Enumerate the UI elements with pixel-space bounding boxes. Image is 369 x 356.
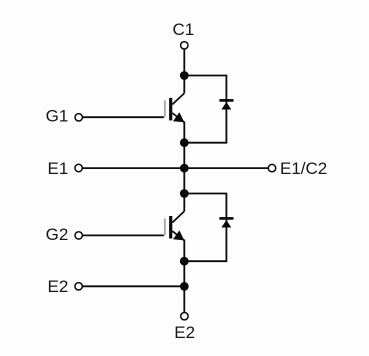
terminal G1 bbox=[75, 114, 82, 121]
wire node N2 to node N3 bbox=[183, 143, 185, 168]
wire Q2 emitter to node N5 bbox=[183, 240, 185, 262]
svg-text:E2: E2 bbox=[174, 323, 195, 342]
wire node N6 to E2 bottom terminal bbox=[183, 286, 185, 312]
wire node N1 to Q1 collector bbox=[183, 76, 185, 94]
junction node N5 bbox=[180, 257, 189, 266]
svg-text:G1: G1 bbox=[46, 107, 69, 126]
terminal E2 left bbox=[75, 283, 82, 290]
wire Q1 emitter to node N2 bbox=[183, 122, 185, 143]
wire D2 branch: node N4 to D2 cathode, down, D2 anode to node N5 bbox=[184, 194, 226, 262]
wire G2 terminal to Q2 gate bbox=[83, 234, 164, 236]
terminal G2 bbox=[75, 232, 82, 239]
junction node N6 bbox=[180, 282, 189, 291]
terminal C1 bbox=[181, 42, 188, 49]
junction node N4 bbox=[180, 189, 189, 198]
diode D2 bbox=[219, 218, 233, 227]
svg-text:E1/C2: E1/C2 bbox=[280, 159, 327, 178]
wire G1 terminal to Q1 gate bbox=[83, 116, 164, 118]
svg-text:C1: C1 bbox=[173, 20, 195, 39]
wire node N5 to node N6 bbox=[183, 261, 185, 286]
terminal E2 bottom bbox=[181, 313, 188, 320]
wire node N3 to node N4 bbox=[183, 168, 185, 193]
svg-text:G2: G2 bbox=[46, 225, 69, 244]
IGBT Q2 bbox=[164, 211, 184, 240]
wire C1 terminal to node N1 bbox=[183, 50, 185, 76]
junction node N2 bbox=[180, 138, 189, 147]
terminal E1 bbox=[75, 164, 82, 171]
wire node N4 to Q2 collector bbox=[183, 194, 185, 212]
junction node N3 bbox=[180, 164, 189, 173]
svg-text:E1: E1 bbox=[48, 159, 69, 178]
junction node N1 bbox=[180, 71, 189, 80]
wire E2 terminal to node N6 bbox=[82, 285, 184, 287]
terminal E1/C2 bbox=[268, 164, 275, 171]
svg-text:E2: E2 bbox=[48, 277, 69, 296]
wire D1 branch: node N1 to D1 cathode, down, D1 anode to node N2 bbox=[184, 76, 226, 143]
wire E1 rail (E1 terminal to E1/C2 terminal) bbox=[82, 167, 268, 169]
diode D1 bbox=[219, 100, 233, 109]
IGBT Q1 bbox=[164, 93, 184, 122]
